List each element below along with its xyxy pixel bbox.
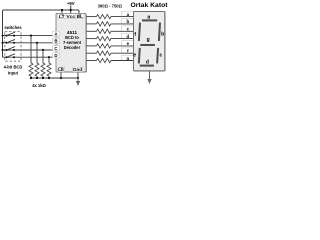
wire LT stub: [61, 10, 63, 14]
svg-text:d: d: [146, 59, 149, 65]
resistor R1 vertical: [29, 63, 33, 78]
junction LE/rail: [60, 77, 62, 79]
segment f: [139, 23, 140, 41]
pin A: [53, 31, 60, 36]
wire row B: [2, 42, 53, 44]
pin LE: [58, 67, 65, 72]
svg-text:Input: Input: [8, 71, 19, 76]
resistor R3 vertical: [41, 63, 45, 78]
resistor Rd: [86, 36, 133, 40]
svg-text:c: c: [160, 52, 163, 58]
pin Vcc: [66, 14, 76, 20]
segment g: [140, 44, 155, 46]
switch S2: [6, 39, 16, 43]
display DS1 body: [134, 12, 166, 72]
wire row A: [2, 35, 53, 37]
pin B: [53, 38, 60, 43]
wire Vcc stub: [70, 10, 72, 14]
svg-text:Vcc: Vcc: [67, 14, 76, 20]
display pin box f: [122, 48, 134, 54]
display pin box c: [122, 26, 134, 32]
junction R1/rail: [30, 77, 32, 79]
IC 3D shadow: [57, 15, 87, 72]
wire Gnd stub: [77, 72, 79, 79]
wire +9V rail: [3, 10, 80, 57]
junction dot LT: [61, 9, 63, 11]
svg-text:BL: BL: [77, 14, 83, 20]
display pin box d: [122, 33, 134, 39]
svg-text:b: b: [161, 31, 164, 37]
resistor Rb: [86, 22, 133, 26]
display pin box g: [122, 55, 134, 61]
wire tap D down: [48, 57, 50, 63]
segment b: [159, 23, 160, 41]
segment d: [140, 65, 154, 67]
svg-text:Decoder: Decoder: [64, 45, 81, 50]
svg-text:390Ω - 750Ω: 390Ω - 750Ω: [98, 4, 123, 9]
pin Gnd: [73, 67, 83, 72]
svg-text:e: e: [133, 52, 136, 58]
svg-text:Gnd: Gnd: [73, 67, 82, 72]
display pin box a: [122, 11, 134, 17]
resistor R4 vertical: [47, 63, 51, 78]
junction dot Vcc: [70, 9, 72, 11]
resistor R2 vertical: [35, 63, 39, 78]
junction R3/rail: [42, 77, 44, 79]
svg-text:4x 1kΩ: 4x 1kΩ: [32, 83, 46, 88]
svg-text:a: a: [147, 15, 150, 21]
svg-text:D: D: [54, 53, 57, 58]
display 3D shadow: [134, 13, 165, 71]
wire ground rail: [31, 77, 78, 79]
resistor Rf: [86, 51, 133, 55]
resistor Re: [86, 44, 133, 48]
svg-text:switches: switches: [4, 25, 22, 30]
IC U1 4511 body: [56, 14, 86, 73]
pin D: [53, 53, 60, 58]
svg-text:+9V: +9V: [67, 1, 75, 6]
ground arrow (display): [147, 79, 151, 84]
svg-text:4511: 4511: [67, 30, 78, 35]
segment c: [157, 48, 158, 64]
junction R4/rail: [48, 77, 50, 79]
ground arrow (chip): [76, 78, 80, 86]
switch S4: [6, 54, 16, 58]
svg-text:Ortak Katot: Ortak Katot: [130, 2, 168, 9]
resistor Ra: [86, 14, 133, 18]
svg-text:4-bit BCD: 4-bit BCD: [4, 65, 23, 70]
pin C: [53, 46, 60, 51]
svg-text:B: B: [54, 39, 57, 44]
wire tap A down: [30, 36, 32, 63]
svg-text:g: g: [147, 37, 150, 43]
resistor Rc: [86, 29, 133, 33]
segment a: [142, 19, 157, 21]
wire display cathode: [149, 71, 151, 80]
switches dashed box: [5, 32, 21, 61]
display pin box e: [122, 41, 134, 47]
wire tap B down: [36, 43, 38, 63]
wire row D: [3, 56, 53, 58]
pin BL: [76, 14, 85, 20]
resistor Rg: [86, 58, 133, 62]
junction Gnd/rail: [77, 77, 79, 79]
pin LT: [58, 14, 67, 20]
svg-text:LT: LT: [59, 14, 65, 20]
switch S1: [6, 32, 16, 36]
wire +9V stub: [70, 6, 72, 11]
junction R2/rail: [36, 77, 38, 79]
switch S3: [6, 47, 16, 51]
wire LE stub: [60, 72, 62, 79]
wire tap C down: [42, 50, 44, 63]
wire row C: [2, 49, 53, 51]
display pin box b: [122, 19, 134, 25]
segment e: [139, 48, 140, 64]
